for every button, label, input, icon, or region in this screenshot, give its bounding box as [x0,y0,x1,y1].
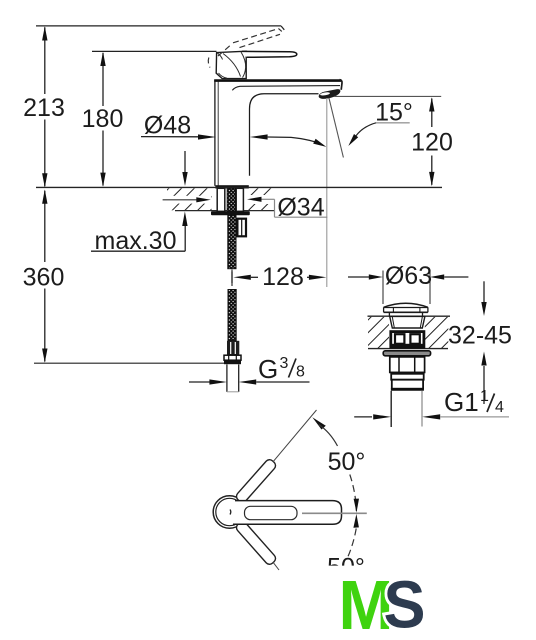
top view inner circle [216,498,243,525]
faucet body left edge (double line) [215,80,218,186]
countertop hatching right [247,188,273,210]
faucet base gasket [215,185,249,188]
svg-text:120: 120 [411,129,453,157]
drain counter hatching left [368,317,389,348]
drain dia63 extension lines [383,271,430,305]
drain washer [383,351,430,356]
svg-text:213: 213 [23,94,65,122]
white gap for dia34 arrows [160,195,273,204]
svg-text:S: S [384,568,426,640]
drain neck above counter [389,312,422,316]
top view centerline [302,512,367,514]
svg-text:3: 3 [280,355,289,372]
water stream vertical line [326,98,328,287]
countertop hatching left [167,188,212,210]
drain counter underside line [368,348,448,350]
water spray 15 degree line [329,98,344,158]
svg-text:4: 4 [495,399,504,416]
faucet shank left wall [217,188,225,211]
reference arrow to counter surface [182,151,187,186]
label G3/8 [189,354,310,385]
drain hex nut [390,357,425,374]
svg-text:32-45: 32-45 [448,322,512,350]
svg-text:8: 8 [296,364,305,381]
mounting washer [211,211,250,215]
top view center mark [229,510,232,515]
dimension 128 [232,263,326,291]
dimension 360 [23,189,65,362]
dimension 213 extension line (top) [36,25,281,27]
svg-text:1: 1 [480,388,489,405]
hose crimp sleeve [227,341,239,355]
drain collar [391,374,424,380]
dimension 180 extension line [92,50,217,52]
dimension 32-45 [448,281,512,404]
label G1 1/4 [354,387,509,420]
handle lever [242,51,297,57]
drain lock ring [391,380,424,390]
dimension 180 [82,52,124,187]
svg-text:50°: 50° [328,448,366,476]
dimension Ø48 [141,112,268,140]
svg-text:G: G [258,354,278,384]
svg-text:Ø48: Ø48 [144,112,191,140]
faucet inner curve and spout underside [250,94,319,176]
svg-text:Ø63: Ø63 [385,262,432,290]
drain flange through counter [390,316,425,328]
360 bottom extension line [34,362,224,364]
faucet spout top edge [214,79,341,82]
hose centerline tick [231,270,233,287]
handle cartridge [216,51,246,78]
hose nipple [237,219,246,237]
50 degree arc upper [312,417,359,512]
drain tailpipe [391,391,422,427]
svg-text:Ø34: Ø34 [277,194,324,222]
drain body box [390,332,425,348]
raised lever (dashed) [208,29,282,68]
hose nut [224,355,241,364]
top view horizontal lever [233,501,342,525]
drain countertop line [368,315,451,317]
label 15 degrees [348,99,413,147]
top view lever rotated up 50 [235,410,317,504]
label max.30 [91,211,188,254]
50 degree arc lower [348,514,359,557]
svg-text:180: 180 [82,105,124,133]
dimension Ø63 [348,262,468,290]
faucet shank right wall [236,188,243,211]
label Ø34 [163,194,328,222]
aerator [319,89,341,99]
dimension 120 extension line (top) [334,95,441,97]
dimension 213 [23,26,65,187]
spout accent line [232,86,340,91]
15 degree pointer arc (left) [268,137,327,147]
top view lever inner outline [245,506,298,519]
213 extension hook [281,26,284,30]
flexible hose braid [228,290,236,341]
svg-text:360: 360 [23,264,65,292]
connection pipe G3/8 [227,364,239,391]
svg-text:G1: G1 [444,387,479,417]
threaded stud below washer [228,215,236,269]
drain dome cap [384,303,428,312]
cartridge inner curves [218,52,246,78]
top view lever rotated down 50 [235,520,279,570]
countertop line [36,186,442,188]
dimension 120 [411,97,453,186]
drain counter hatching right [425,317,449,348]
top view outer circle [213,496,246,529]
countertop underside line [175,210,275,212]
threaded stud through counter [227,188,235,211]
svg-text:128: 128 [262,263,304,291]
spout end face [340,80,343,90]
